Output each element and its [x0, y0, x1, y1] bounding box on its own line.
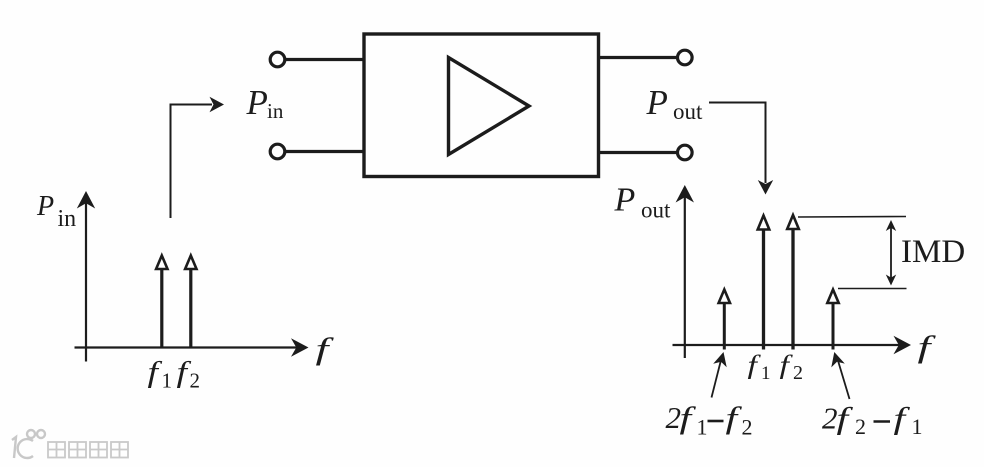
label P_out (block output) — [646, 83, 704, 124]
label P_in (left axis) — [36, 191, 76, 232]
right spectrum: IM3 tone 2f2-f1 — [827, 290, 838, 350]
svg-text:in: in — [267, 99, 284, 123]
svg-text:f: f — [748, 350, 761, 379]
svg-text:f: f — [918, 330, 937, 365]
wire: output bottom lead — [598, 151, 678, 154]
watermark text — [48, 442, 128, 458]
svg-text:P: P — [646, 83, 668, 122]
wire: input top lead — [286, 58, 365, 61]
output terminal bottom — [678, 145, 693, 160]
IMD measurement double arrow — [886, 220, 896, 286]
label f2 (left) — [177, 356, 201, 393]
svg-text:1: 1 — [912, 414, 923, 439]
right spectrum: IM3 tone 2f1-f2 — [719, 290, 730, 350]
right spectrum: y axis — [676, 185, 694, 358]
label 2f1-f2 — [666, 400, 753, 440]
amplifier box U1 — [364, 34, 599, 177]
svg-text:P: P — [614, 182, 636, 219]
svg-text:P: P — [36, 191, 54, 222]
svg-text:out: out — [641, 198, 671, 223]
input terminal top — [270, 52, 285, 67]
svg-text:f: f — [780, 350, 793, 379]
left spectrum: tone f2 — [185, 256, 196, 349]
svg-text:IMD: IMD — [901, 234, 965, 270]
label f2 (right) — [780, 350, 804, 384]
svg-text:1: 1 — [162, 369, 173, 393]
right spectrum: tone f2 — [787, 215, 799, 350]
svg-text:2: 2 — [822, 401, 838, 436]
label P_in (block input) — [246, 83, 284, 123]
input terminal bottom — [270, 144, 285, 159]
svg-text:in: in — [58, 206, 77, 232]
right spectrum: tone f1 — [758, 216, 770, 350]
svg-text:1: 1 — [697, 415, 708, 440]
label f1 (right) — [748, 350, 771, 384]
svg-text:2: 2 — [793, 362, 803, 384]
svg-text:2: 2 — [742, 415, 753, 440]
left spectrum: x axis — [75, 338, 309, 356]
label P_out (right axis) — [614, 182, 672, 223]
svg-text:2: 2 — [190, 369, 201, 393]
svg-text:P: P — [246, 83, 268, 122]
reference line from 2f2-f1 peak — [838, 288, 907, 290]
svg-text:1: 1 — [761, 363, 771, 384]
wire: input bottom lead — [286, 150, 365, 153]
label f1 (left) — [148, 356, 173, 393]
amplifier triangle U1 — [449, 58, 530, 155]
arrow: P_in callout — [171, 97, 225, 218]
svg-text:f: f — [726, 400, 743, 435]
pointer arrow to 2f2-f1 — [831, 352, 849, 399]
svg-text:f: f — [680, 400, 697, 435]
right spectrum: x axis — [673, 336, 912, 354]
arrow: P_out callout — [709, 103, 773, 195]
label 2f2-f1 — [822, 401, 923, 440]
watermark logo — [12, 430, 45, 458]
label f (left x axis) — [316, 332, 335, 367]
reference line from f2 peak — [798, 216, 906, 219]
left spectrum: y axis — [77, 191, 95, 362]
svg-text:2: 2 — [855, 414, 866, 439]
svg-text:out: out — [673, 99, 703, 124]
left spectrum: tone f1 — [156, 256, 167, 349]
svg-text:f: f — [894, 401, 911, 436]
svg-text:f: f — [837, 401, 854, 436]
pointer arrow to 2f1-f2 — [712, 352, 727, 398]
svg-text:f: f — [316, 332, 335, 367]
output terminal top — [678, 50, 693, 65]
wire: output top lead — [598, 56, 678, 59]
label f (right x axis) — [918, 330, 937, 365]
